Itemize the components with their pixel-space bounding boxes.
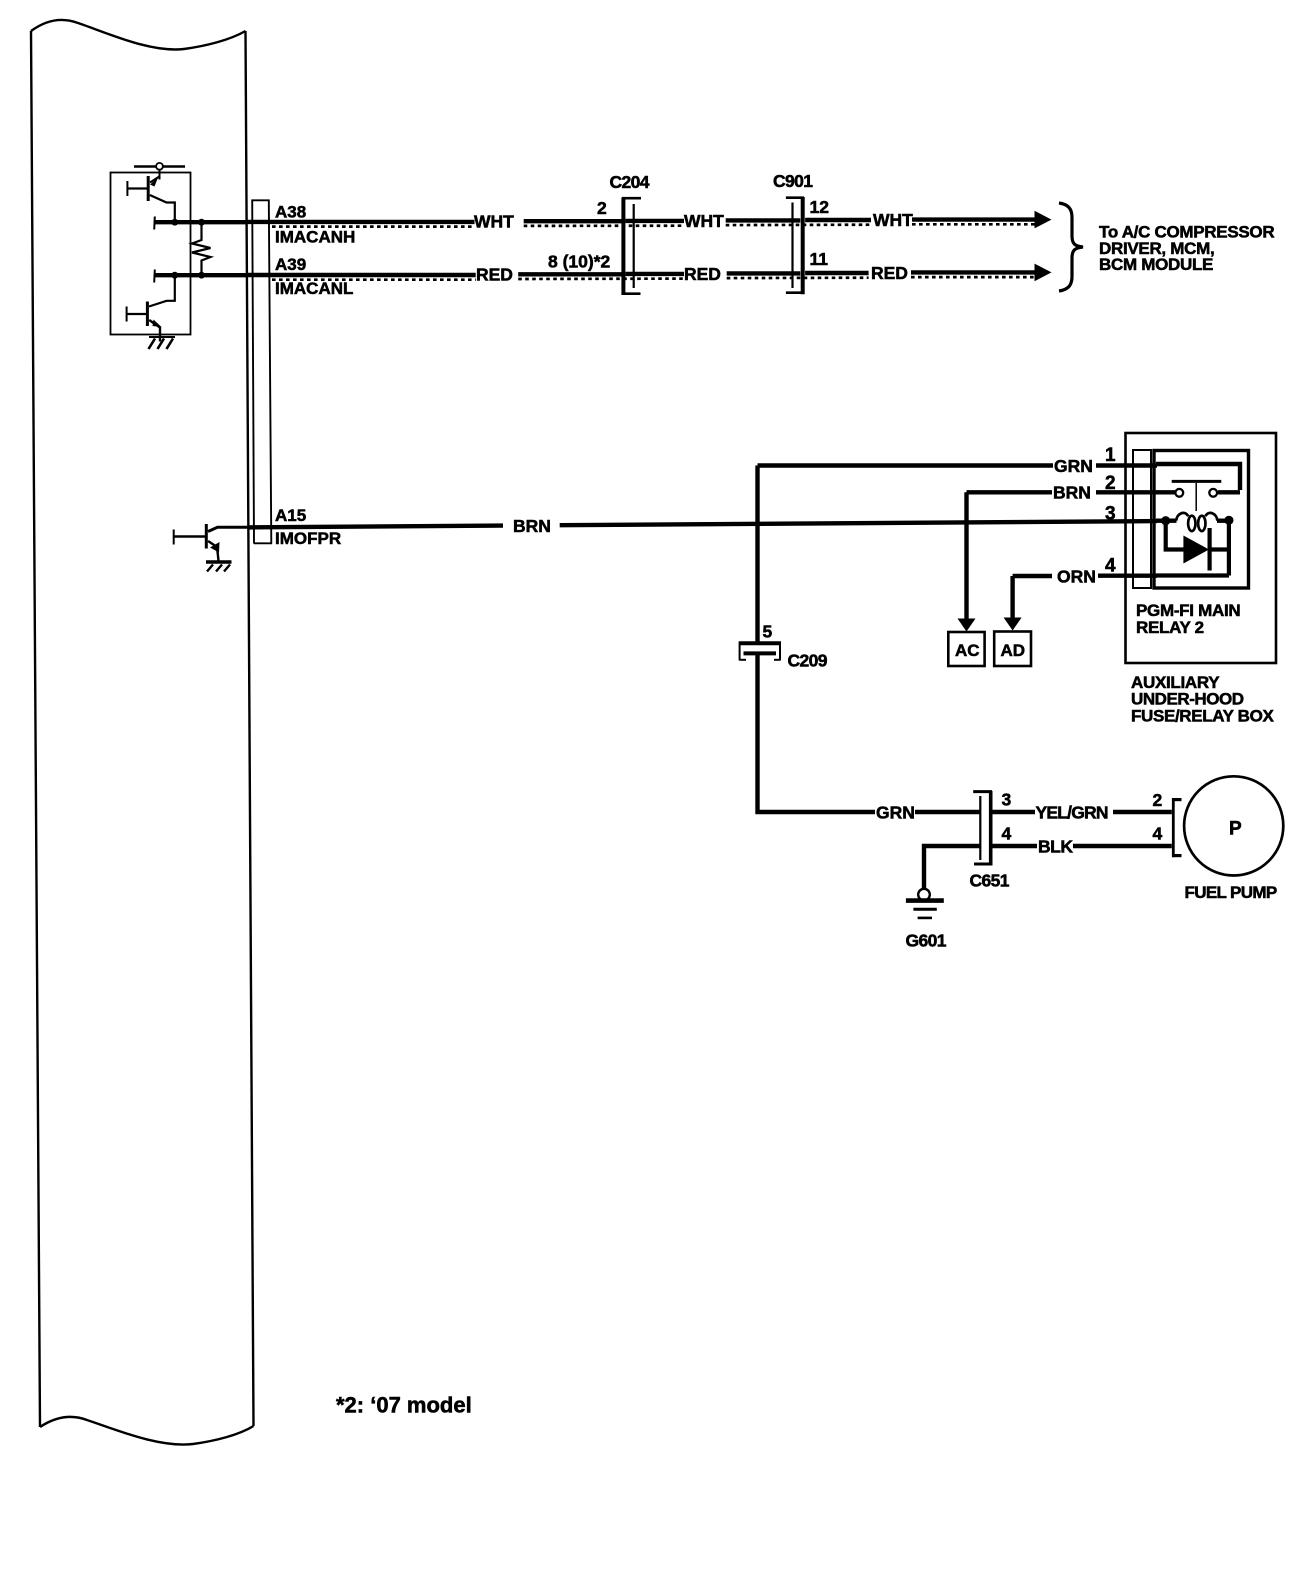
svg-text:12: 12 bbox=[810, 197, 830, 217]
svg-text:C901: C901 bbox=[773, 171, 813, 191]
wire GRN to C651 bbox=[915, 810, 981, 814]
svg-text:GRN: GRN bbox=[1054, 456, 1093, 476]
svg-text:5: 5 bbox=[763, 622, 773, 642]
svg-text:8 (10)*2: 8 (10)*2 bbox=[548, 252, 611, 272]
svg-text:3: 3 bbox=[1105, 504, 1116, 525]
svg-text:11: 11 bbox=[810, 249, 829, 269]
fuel pump motor circle bbox=[1184, 776, 1283, 875]
svg-text:1: 1 bbox=[1105, 445, 1116, 466]
svg-text:RED: RED bbox=[871, 263, 908, 283]
relay internal: pin1 feed to switch bbox=[1156, 464, 1240, 492]
svg-text:3: 3 bbox=[1002, 789, 1012, 809]
arrow to A/C compressor driver (RED) bbox=[1035, 264, 1052, 282]
CAN driver box in ECM bbox=[111, 173, 191, 335]
svg-text:C651: C651 bbox=[970, 871, 1010, 891]
connector C209 bbox=[739, 642, 781, 661]
svg-text:IMACANH: IMACANH bbox=[275, 227, 355, 246]
auxiliary under-hood fuse/relay box outline bbox=[1126, 433, 1277, 663]
ORN branch arrow down to AD bbox=[1010, 576, 1014, 618]
svg-text:IMOFPR: IMOFPR bbox=[275, 529, 341, 548]
svg-text:IMACANL: IMACANL bbox=[275, 279, 353, 298]
svg-text:RED: RED bbox=[476, 265, 513, 285]
svg-text:WHT: WHT bbox=[873, 210, 913, 230]
relay switch movable bar bbox=[1172, 480, 1222, 483]
connector C204 bbox=[622, 198, 641, 296]
svg-text:FUEL PUMP: FUEL PUMP bbox=[1185, 883, 1277, 902]
svg-text:YEL/GRN: YEL/GRN bbox=[1036, 802, 1108, 822]
svg-text:4: 4 bbox=[1153, 824, 1163, 844]
wire GRN vertical drop bbox=[755, 466, 759, 642]
svg-text:2: 2 bbox=[597, 198, 607, 218]
resistor (CAN termination) bbox=[192, 225, 211, 275]
wire A39 RED (solid segments) bbox=[247, 272, 1037, 275]
relay coil junction dots bbox=[1161, 516, 1170, 525]
relay coil bbox=[1166, 513, 1229, 531]
transistor Q3 (IMOFPR driver) bbox=[174, 524, 249, 561]
ground (CAN driver) bbox=[149, 337, 176, 349]
wire A15 BRN main bbox=[249, 521, 1158, 527]
relay internal: pin3 to coil bbox=[1156, 519, 1166, 523]
wire BRN stub to relay pin 2 bbox=[967, 490, 1158, 494]
svg-text:AD: AD bbox=[1001, 641, 1026, 660]
svg-text:A38: A38 bbox=[275, 203, 306, 222]
svg-text:A15: A15 bbox=[275, 506, 306, 525]
wire A39 twisted-pair dashes bbox=[272, 277, 1036, 280]
svg-text:WHT: WHT bbox=[684, 211, 724, 231]
relay actuator link bbox=[1195, 483, 1197, 511]
wire ORN stub to relay pin 4 bbox=[1013, 574, 1157, 579]
ECM connector strip bbox=[252, 200, 273, 544]
supply rail at top of CAN box bbox=[134, 167, 185, 180]
wire YEL/GRN bbox=[993, 810, 1172, 814]
ground G601 bbox=[918, 889, 930, 901]
wire GRN to relay pin 1 bbox=[758, 463, 1158, 467]
svg-text:A39: A39 bbox=[275, 255, 306, 274]
svg-text:P: P bbox=[1229, 819, 1242, 840]
relay switch contacts bbox=[1175, 489, 1183, 497]
svg-text:4: 4 bbox=[1105, 555, 1116, 576]
svg-text:*2: ‘07 model: *2: ‘07 model bbox=[336, 1393, 472, 1418]
destination box AC bbox=[948, 632, 984, 666]
relay diode branch bbox=[1156, 520, 1229, 575]
svg-text:2: 2 bbox=[1105, 473, 1116, 494]
svg-text:2: 2 bbox=[1153, 790, 1163, 810]
relay connector strip bbox=[1133, 450, 1151, 588]
wire BLK bbox=[993, 844, 1172, 848]
svg-text:BRN: BRN bbox=[513, 516, 551, 536]
ECM/PCM module band (torn strip) bbox=[31, 20, 254, 1445]
svg-text:C204: C204 bbox=[610, 172, 650, 192]
relay diode bbox=[1183, 536, 1209, 564]
wire A38 twisted-pair dashes bbox=[272, 224, 1036, 226]
ground (Q3 emitter) bbox=[206, 562, 232, 572]
svg-text:FUSE/RELAY BOX: FUSE/RELAY BOX bbox=[1131, 707, 1274, 726]
svg-text:BCM MODULE: BCM MODULE bbox=[1099, 255, 1213, 274]
svg-text:ORN: ORN bbox=[1057, 566, 1096, 586]
svg-text:BLK: BLK bbox=[1038, 836, 1073, 856]
arrow to A/C compressor driver (WHT) bbox=[1035, 211, 1052, 229]
wire to ground G601 bbox=[924, 846, 981, 889]
node A39 inside ECM bbox=[154, 270, 246, 283]
transistor Q2 (lower CAN driver) bbox=[127, 278, 175, 342]
connector C901 bbox=[786, 197, 804, 294]
brace to A/C compressor driver bbox=[1059, 203, 1083, 291]
svg-text:WHT: WHT bbox=[474, 212, 514, 232]
wire A38 WHT (solid segments) bbox=[247, 220, 1037, 222]
svg-text:4: 4 bbox=[1002, 824, 1012, 844]
svg-text:AC: AC bbox=[955, 641, 980, 660]
destination box AD bbox=[994, 632, 1031, 667]
fuel pump connector bracket bbox=[1172, 798, 1182, 857]
svg-text:GRN: GRN bbox=[876, 802, 915, 822]
node A38 inside ECM bbox=[154, 217, 246, 230]
svg-text:RED: RED bbox=[684, 264, 721, 284]
svg-text:BRN: BRN bbox=[1053, 483, 1091, 503]
relay PGM-FI main relay 2 box bbox=[1154, 451, 1249, 589]
connector C651 bbox=[973, 791, 992, 866]
svg-text:G601: G601 bbox=[906, 931, 947, 951]
svg-text:RELAY 2: RELAY 2 bbox=[1136, 618, 1204, 637]
wire GRN drop below C209 bbox=[758, 653, 876, 812]
transistor Q1 (upper CAN driver) bbox=[127, 176, 174, 219]
BRN branch arrow down to AC bbox=[964, 492, 968, 619]
svg-text:C209: C209 bbox=[788, 650, 828, 670]
